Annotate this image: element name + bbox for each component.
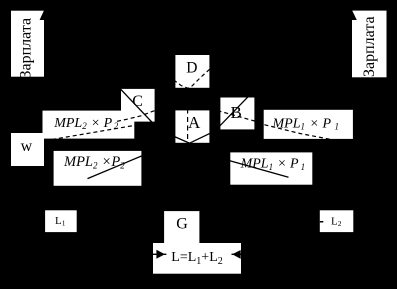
svg-text:G: G [176, 215, 188, 232]
left wage axis label box [11, 11, 44, 77]
bottom axis right arrow (points left) [232, 253, 242, 255]
svg-text:Зарплата: Зарплата [361, 16, 378, 77]
box G [164, 211, 199, 243]
dashed line through C and P2 strike [117, 110, 157, 121]
small dash at left edge of L2 box [320, 221, 324, 223]
curve MPL2 solid (ascending through lower MPL2 label, A, B) [88, 97, 249, 179]
svg-text:w: w [21, 138, 33, 155]
bottom axis left arrow (points right) [153, 253, 167, 255]
dashed line lower in upper MPL2 box [52, 125, 138, 140]
svg-text:A: A [188, 113, 201, 132]
box label MPL1xP1 lower [230, 152, 312, 184]
box L1 [45, 210, 77, 232]
right wage axis label box [352, 11, 387, 78]
box label MPL1xP1 upper [264, 110, 353, 139]
dashed line through B and upper MPL1 box [218, 111, 334, 140]
svg-text:Зарплата: Зарплата [18, 18, 35, 79]
dashed curve through D (V shape) [174, 69, 211, 89]
curve MPL1 solid (descending through C, A, lower MPL1 label) [120, 88, 289, 177]
svg-text:D: D [186, 59, 197, 76]
box D [175, 55, 209, 88]
box label MPL2xP2 upper [43, 111, 135, 139]
box L2 [320, 210, 354, 232]
box A [175, 110, 209, 142]
left axis arrowhead [40, 6, 53, 20]
dashed vertical line at A [187, 109, 189, 147]
right axis arrowhead [343, 6, 357, 20]
box w [11, 133, 44, 166]
box B [220, 98, 254, 130]
box L=L1+L2 [153, 243, 241, 274]
box label MPL2xP2 lower [54, 151, 142, 186]
box C [121, 89, 155, 122]
